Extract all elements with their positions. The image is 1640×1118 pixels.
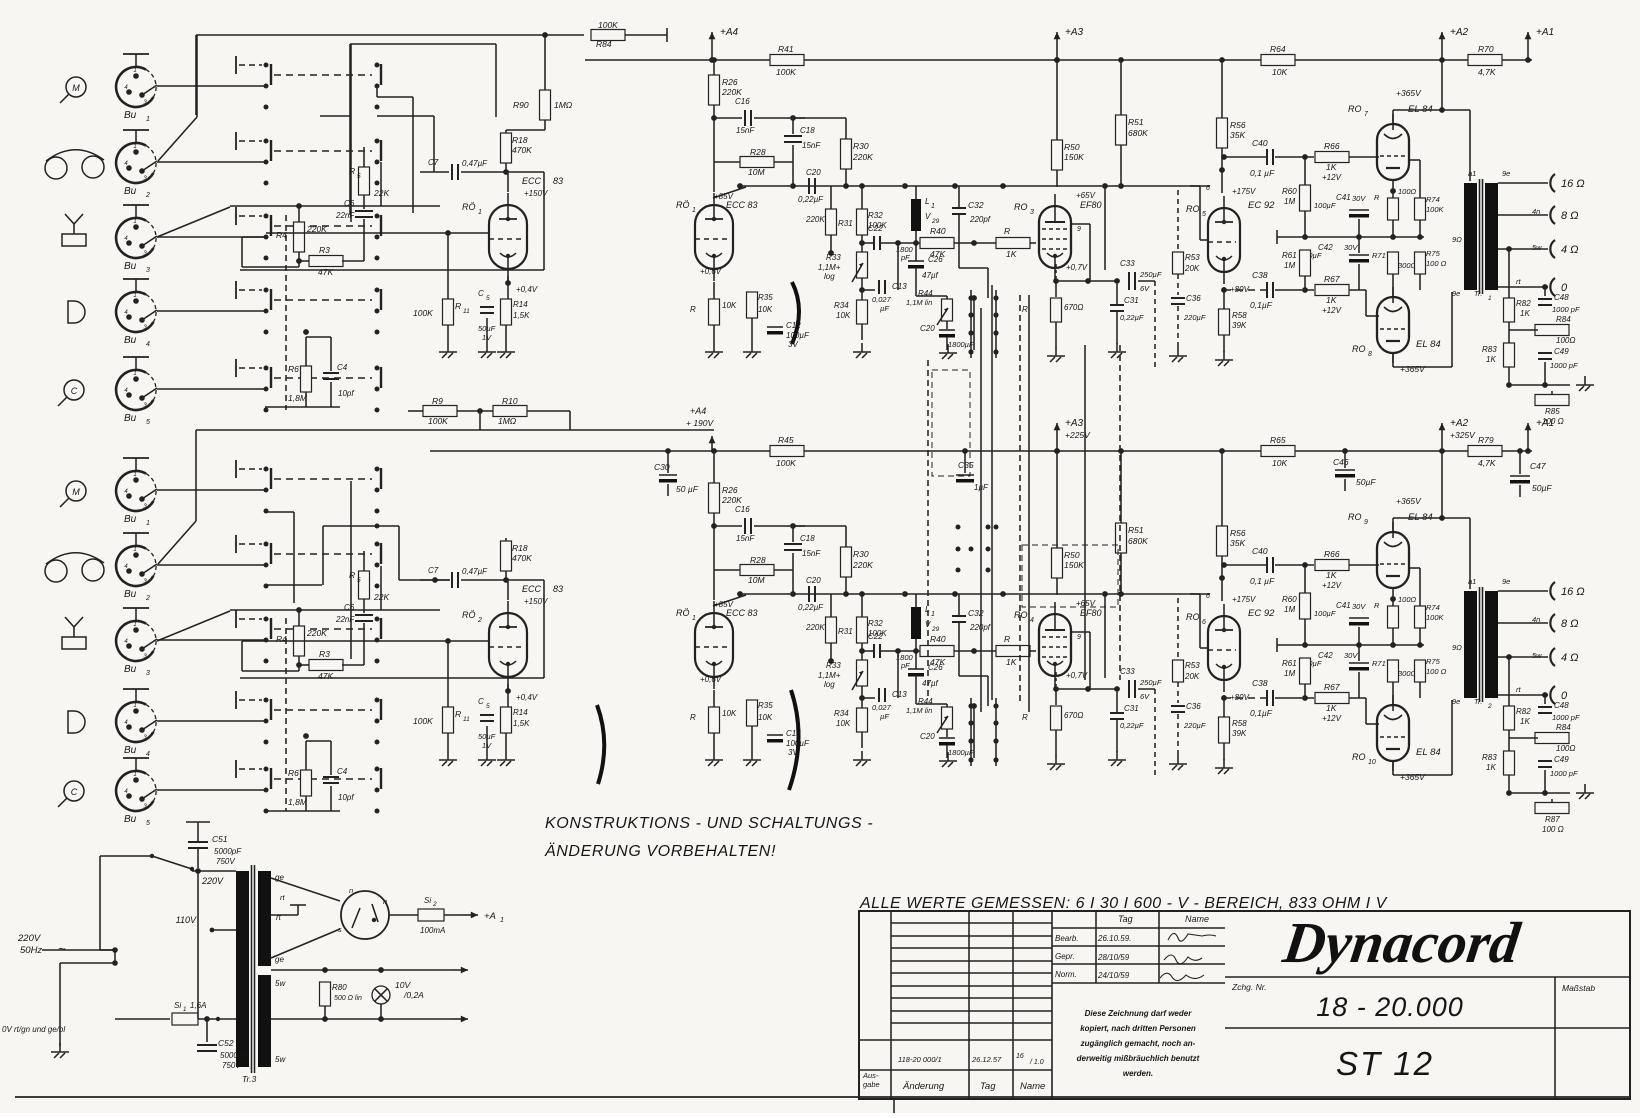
- svg-text:1: 1: [146, 520, 150, 527]
- svg-text:C41: C41: [1336, 601, 1351, 610]
- svg-text:Bu: Bu: [124, 589, 137, 600]
- svg-text:1: 1: [133, 293, 136, 299]
- svg-text:R4: R4: [276, 230, 287, 240]
- svg-text:10pf: 10pf: [338, 793, 354, 802]
- svg-text:R: R: [1004, 634, 1010, 644]
- svg-text:1: 1: [931, 203, 935, 210]
- svg-text:4,7K: 4,7K: [1478, 458, 1496, 468]
- svg-text:1: 1: [133, 219, 136, 225]
- svg-text:Maßstab: Maßstab: [1562, 983, 1595, 993]
- svg-text:500 Ω lin: 500 Ω lin: [334, 995, 362, 1002]
- svg-text:0,1 µF: 0,1 µF: [1250, 168, 1275, 178]
- svg-text:C38: C38: [1252, 678, 1268, 688]
- svg-text:C16: C16: [735, 505, 750, 514]
- svg-text:C13: C13: [892, 282, 907, 291]
- svg-text:1K: 1K: [1326, 162, 1337, 172]
- svg-text:100mA: 100mA: [420, 926, 445, 935]
- svg-text:EF80: EF80: [1080, 608, 1102, 618]
- svg-text:35K: 35K: [1230, 538, 1245, 548]
- svg-text:100Ω: 100Ω: [1398, 595, 1417, 604]
- svg-text:R18: R18: [512, 543, 528, 553]
- svg-text:+A3: +A3: [1065, 27, 1084, 38]
- svg-text:R74: R74: [1426, 195, 1440, 204]
- svg-text:0,22µF: 0,22µF: [798, 603, 824, 612]
- svg-text:5w: 5w: [275, 979, 286, 988]
- svg-text:C22: C22: [868, 224, 883, 233]
- svg-text:0,22µF: 0,22µF: [798, 195, 824, 204]
- svg-text:R33: R33: [826, 253, 841, 262]
- svg-text:R61: R61: [1282, 659, 1297, 668]
- svg-text:n: n: [349, 886, 353, 895]
- svg-text:C20: C20: [920, 324, 935, 333]
- svg-text:s: s: [338, 925, 342, 934]
- svg-text:R58: R58: [1232, 311, 1247, 320]
- svg-text:11: 11: [463, 308, 470, 315]
- svg-text:R56: R56: [1230, 120, 1246, 130]
- svg-text:9e: 9e: [1502, 169, 1510, 178]
- svg-text:R67: R67: [1324, 682, 1340, 692]
- svg-text:ECC: ECC: [522, 584, 542, 594]
- svg-text:250µF: 250µF: [1139, 678, 1162, 687]
- svg-text:9e: 9e: [1452, 697, 1460, 706]
- svg-text:R34: R34: [834, 709, 849, 718]
- svg-text:39K: 39K: [1232, 729, 1247, 738]
- svg-text:Änderung: Änderung: [902, 1081, 945, 1092]
- svg-text:R30: R30: [853, 141, 869, 151]
- svg-text:1: 1: [500, 917, 504, 924]
- svg-text:C16: C16: [735, 97, 750, 106]
- svg-text:M: M: [72, 487, 80, 497]
- svg-text:18 - 20.000: 18 - 20.000: [1316, 992, 1464, 1022]
- svg-text:+A4: +A4: [720, 27, 739, 38]
- svg-text:+0,4V: +0,4V: [516, 693, 538, 702]
- svg-text:100K: 100K: [413, 308, 433, 318]
- svg-text:29: 29: [931, 626, 940, 633]
- svg-text:C40: C40: [1252, 138, 1268, 148]
- svg-text:R: R: [690, 713, 696, 722]
- svg-text:3: 3: [146, 670, 150, 677]
- svg-text:EC 92: EC 92: [1248, 200, 1275, 211]
- svg-text:5w: 5w: [1532, 651, 1542, 660]
- svg-text:1K: 1K: [1326, 295, 1337, 305]
- svg-text:15nF: 15nF: [736, 534, 755, 543]
- svg-text:R75: R75: [1426, 249, 1441, 258]
- svg-text:5w: 5w: [1532, 243, 1542, 252]
- svg-text:C7: C7: [428, 158, 439, 167]
- svg-text:R66: R66: [1324, 549, 1340, 559]
- svg-text:R3: R3: [319, 245, 330, 255]
- svg-text:~: ~: [58, 941, 66, 956]
- svg-text:R28: R28: [750, 555, 766, 565]
- svg-text:R41: R41: [778, 44, 794, 54]
- svg-text:+365V: +365V: [1400, 364, 1426, 374]
- svg-text:M: M: [72, 83, 80, 93]
- svg-text:R67: R67: [1324, 274, 1340, 284]
- svg-text:R58: R58: [1232, 719, 1247, 728]
- svg-text:118-20 000/1: 118-20 000/1: [898, 1055, 942, 1064]
- svg-text:C4: C4: [337, 767, 348, 776]
- svg-text:a1: a1: [1468, 577, 1476, 586]
- svg-text:4: 4: [146, 341, 150, 348]
- svg-text:1MΩ: 1MΩ: [498, 416, 517, 426]
- svg-text:220V: 220V: [17, 933, 42, 944]
- svg-text:Tag: Tag: [980, 1081, 996, 1092]
- svg-text:6: 6: [1206, 593, 1210, 600]
- svg-text:100K: 100K: [776, 458, 796, 468]
- svg-text:C38: C38: [1252, 270, 1268, 280]
- svg-text:+365V: +365V: [1396, 88, 1422, 98]
- svg-text:Bu: Bu: [124, 514, 137, 525]
- svg-text:C33: C33: [1120, 259, 1135, 268]
- svg-text:EL 84: EL 84: [1416, 339, 1441, 350]
- svg-text:6V: 6V: [1140, 284, 1150, 293]
- svg-text:47µf: 47µf: [922, 271, 939, 280]
- svg-text:C4: C4: [337, 363, 348, 372]
- svg-text:0,47µF: 0,47µF: [462, 567, 488, 576]
- svg-text:Aus-: Aus-: [862, 1071, 879, 1080]
- svg-text:R34: R34: [834, 301, 849, 310]
- svg-text:R32: R32: [868, 211, 883, 220]
- svg-text:+0,6V: +0,6V: [700, 675, 722, 684]
- svg-text:R26: R26: [722, 77, 738, 87]
- svg-text:Bu: Bu: [124, 335, 137, 346]
- svg-text:750V: 750V: [216, 857, 235, 866]
- svg-text:Gepr.: Gepr.: [1055, 952, 1075, 961]
- svg-text:+12V: +12V: [1322, 306, 1342, 315]
- svg-text:1: 1: [133, 371, 136, 377]
- svg-text:R40: R40: [930, 226, 946, 236]
- svg-text:680K: 680K: [1128, 536, 1148, 546]
- svg-text:+175V: +175V: [1232, 595, 1256, 604]
- svg-text:4 Ω: 4 Ω: [1561, 652, 1579, 664]
- svg-text:100K: 100K: [598, 20, 618, 30]
- svg-text:1800µF: 1800µF: [948, 748, 974, 757]
- svg-text:26.12.57: 26.12.57: [971, 1055, 1002, 1064]
- svg-text:Tag: Tag: [1118, 914, 1133, 924]
- svg-text:1: 1: [183, 1007, 186, 1013]
- svg-text:+A2: +A2: [1450, 27, 1469, 38]
- svg-text:+ 190V: + 190V: [686, 418, 715, 428]
- svg-text:20K: 20K: [1184, 264, 1200, 273]
- svg-text:0,1µF: 0,1µF: [1250, 300, 1273, 310]
- svg-text:1M: 1M: [1284, 669, 1295, 678]
- svg-text:µF: µF: [880, 712, 889, 721]
- svg-text:kopiert, nach dritten Perso: kopiert, nach dritten Personen: [1080, 1024, 1196, 1033]
- svg-text:R31: R31: [838, 219, 853, 228]
- svg-text:30V: 30V: [1352, 194, 1366, 203]
- svg-text:gabe: gabe: [863, 1080, 880, 1089]
- svg-text:+365V: +365V: [1396, 496, 1422, 506]
- svg-text:Bu: Bu: [124, 745, 137, 756]
- svg-text:4: 4: [1030, 617, 1034, 624]
- svg-text:R53: R53: [1185, 661, 1200, 670]
- svg-text:9: 9: [1077, 226, 1081, 233]
- svg-text:1K: 1K: [1326, 703, 1337, 713]
- svg-text:Bearb.: Bearb.: [1055, 934, 1079, 943]
- svg-text:R: R: [690, 305, 696, 314]
- svg-text:9: 9: [1364, 519, 1368, 526]
- svg-text:16: 16: [1016, 1053, 1024, 1060]
- svg-text:5: 5: [1202, 211, 1206, 218]
- svg-text:35K: 35K: [1230, 130, 1245, 140]
- svg-text:100Ω: 100Ω: [1556, 336, 1575, 345]
- svg-text:EL 84: EL 84: [1416, 747, 1441, 758]
- svg-text:1K: 1K: [1486, 355, 1496, 364]
- svg-text:R84: R84: [1556, 723, 1571, 732]
- svg-text:C20: C20: [806, 168, 821, 177]
- svg-text:110V: 110V: [176, 915, 197, 925]
- svg-text:220K: 220K: [852, 560, 873, 570]
- svg-text:C18: C18: [800, 534, 815, 543]
- svg-text:22nF: 22nF: [335, 211, 355, 220]
- svg-text:V: V: [925, 212, 931, 221]
- svg-text:9Ω: 9Ω: [1452, 235, 1462, 244]
- svg-text:83: 83: [553, 584, 563, 594]
- svg-text:RO: RO: [1352, 344, 1366, 354]
- svg-text:0,027: 0,027: [872, 295, 892, 304]
- svg-text:0,22µF: 0,22µF: [1120, 313, 1144, 322]
- svg-text:C22: C22: [868, 632, 883, 641]
- svg-text:R83: R83: [1482, 753, 1497, 762]
- svg-text:+A1: +A1: [1536, 418, 1554, 429]
- svg-text:5: 5: [357, 173, 361, 180]
- svg-text:R44: R44: [918, 289, 933, 298]
- svg-text:30V: 30V: [1352, 602, 1366, 611]
- svg-text:0,47µF: 0,47µF: [462, 159, 488, 168]
- svg-text:R: R: [1374, 601, 1380, 610]
- svg-text:5000pF: 5000pF: [220, 1051, 248, 1060]
- svg-text:R70: R70: [1478, 44, 1494, 54]
- svg-text:15nF: 15nF: [736, 126, 755, 135]
- svg-text:EC 92: EC 92: [1248, 608, 1275, 619]
- svg-text:10K: 10K: [836, 311, 851, 320]
- svg-text:1,1M+: 1,1M+: [818, 263, 841, 272]
- svg-text:+65V: +65V: [1076, 191, 1096, 200]
- svg-text:6: 6: [1206, 185, 1210, 192]
- svg-text:2: 2: [145, 595, 150, 602]
- svg-text:1: 1: [931, 611, 935, 618]
- svg-text:5000pF: 5000pF: [214, 847, 242, 856]
- svg-text:1,8M: 1,8M: [288, 797, 308, 807]
- svg-text:R45: R45: [778, 435, 794, 445]
- svg-text:5: 5: [146, 419, 150, 426]
- svg-text:R87: R87: [1545, 815, 1560, 824]
- svg-text:100 Ω: 100 Ω: [1426, 667, 1447, 676]
- svg-text:28/10/59: 28/10/59: [1097, 953, 1130, 962]
- svg-text:R51: R51: [1128, 117, 1144, 127]
- svg-text:R14: R14: [513, 300, 528, 309]
- svg-text:220pf: 220pf: [969, 623, 991, 632]
- svg-text:220K: 220K: [805, 215, 825, 224]
- svg-text:R50: R50: [1064, 142, 1080, 152]
- svg-text:Si: Si: [174, 1001, 181, 1010]
- svg-text:Bu: Bu: [124, 413, 137, 424]
- svg-text:15nF: 15nF: [802, 141, 821, 150]
- svg-text:R6: R6: [288, 364, 299, 374]
- svg-text:C7: C7: [428, 566, 439, 575]
- svg-text:R66: R66: [1324, 141, 1340, 151]
- svg-text:220K: 220K: [306, 628, 327, 638]
- svg-text:R64: R64: [1270, 44, 1286, 54]
- svg-text:R82: R82: [1516, 707, 1531, 716]
- svg-text:+A4: +A4: [690, 406, 706, 416]
- svg-text:29: 29: [931, 218, 940, 225]
- svg-text:10K: 10K: [1272, 458, 1287, 468]
- svg-text:220K: 220K: [805, 623, 825, 632]
- svg-text:1800µF: 1800µF: [948, 340, 974, 349]
- svg-text:16 Ω: 16 Ω: [1561, 586, 1585, 598]
- svg-text:R82: R82: [1516, 299, 1531, 308]
- svg-text:22nF: 22nF: [335, 615, 355, 624]
- svg-text:R18: R18: [512, 135, 528, 145]
- svg-text:1,1M lin: 1,1M lin: [906, 298, 932, 307]
- svg-text:1: 1: [133, 472, 136, 478]
- svg-text:5: 5: [486, 703, 490, 710]
- svg-text:R85: R85: [1545, 407, 1560, 416]
- svg-text:R: R: [349, 166, 355, 176]
- svg-text:220K: 220K: [721, 87, 742, 97]
- svg-text:1: 1: [133, 772, 136, 778]
- svg-text:R56: R56: [1230, 528, 1246, 538]
- svg-text:750V: 750V: [222, 1061, 241, 1070]
- svg-text:Norm.: Norm.: [1055, 970, 1077, 979]
- svg-text:+12V: +12V: [1322, 581, 1342, 590]
- svg-text:Bu: Bu: [124, 186, 137, 197]
- svg-text:10V: 10V: [395, 980, 411, 990]
- svg-text:Tr.3: Tr.3: [242, 1074, 256, 1084]
- svg-text:150K: 150K: [1064, 152, 1084, 162]
- svg-text:50Hz: 50Hz: [20, 945, 42, 956]
- svg-text:10K: 10K: [836, 719, 851, 728]
- svg-text:1,1M lin: 1,1M lin: [906, 706, 932, 715]
- svg-text:1000 pF: 1000 pF: [1552, 305, 1580, 314]
- svg-text:Bu: Bu: [124, 110, 137, 121]
- svg-text:1K: 1K: [1326, 570, 1337, 580]
- svg-text:C: C: [478, 289, 484, 298]
- svg-text:+A3: +A3: [1065, 418, 1084, 429]
- svg-text:220K: 220K: [852, 152, 873, 162]
- svg-text:C35: C35: [958, 460, 974, 470]
- svg-text:RÖ: RÖ: [676, 608, 690, 618]
- svg-text:47µf: 47µf: [922, 679, 939, 688]
- svg-text:1: 1: [133, 68, 136, 74]
- svg-text:RO: RO: [1348, 512, 1362, 522]
- svg-text:EF80: EF80: [1080, 200, 1102, 210]
- svg-text:a1: a1: [1468, 169, 1476, 178]
- svg-text:R: R: [1374, 193, 1380, 202]
- svg-text:C13: C13: [892, 690, 907, 699]
- svg-text:1M: 1M: [1284, 605, 1295, 614]
- svg-text:220V: 220V: [201, 876, 224, 886]
- svg-text:47K: 47K: [318, 671, 333, 681]
- svg-text:C49: C49: [1554, 347, 1569, 356]
- svg-text:R71: R71: [1372, 251, 1386, 260]
- svg-text:+365V: +365V: [1400, 772, 1426, 782]
- svg-text:R84: R84: [1556, 315, 1571, 324]
- svg-text:R61: R61: [1282, 251, 1297, 260]
- svg-text:R50: R50: [1064, 550, 1080, 560]
- svg-text:100K: 100K: [1426, 205, 1445, 214]
- svg-text:+175V: +175V: [1232, 187, 1256, 196]
- svg-text:ÄNDERUNG VORBEHALTEN!: ÄNDERUNG VORBEHALTEN!: [544, 842, 776, 860]
- svg-text:9e: 9e: [1452, 289, 1460, 298]
- svg-text:C49: C49: [1554, 755, 1569, 764]
- svg-text:R30: R30: [853, 549, 869, 559]
- svg-text:30V: 30V: [1344, 651, 1358, 660]
- svg-text:werden.: werden.: [1123, 1069, 1153, 1078]
- svg-text:100 Ω: 100 Ω: [1426, 259, 1447, 268]
- svg-text:1: 1: [1488, 295, 1492, 302]
- svg-text:R84: R84: [596, 39, 612, 49]
- svg-text:11: 11: [463, 716, 470, 723]
- svg-text:C36: C36: [1186, 702, 1201, 711]
- svg-text:0,027: 0,027: [872, 703, 892, 712]
- svg-text:1000 pF: 1000 pF: [1550, 769, 1578, 778]
- svg-text:RÖ: RÖ: [676, 200, 690, 210]
- svg-text:/0,2A: /0,2A: [403, 990, 424, 1000]
- svg-text:10K: 10K: [758, 305, 773, 314]
- svg-text:RO: RO: [1186, 612, 1200, 622]
- svg-text:derweitig mißbräuchlich benut: derweitig mißbräuchlich benutzt: [1077, 1054, 1200, 1063]
- svg-text:R71: R71: [1372, 659, 1386, 668]
- svg-text:470K: 470K: [512, 553, 532, 563]
- svg-text:R60: R60: [1282, 595, 1297, 604]
- svg-text:1,5K: 1,5K: [513, 311, 530, 320]
- svg-text:8 Ω: 8 Ω: [1561, 210, 1579, 222]
- svg-text:10K: 10K: [722, 709, 737, 718]
- svg-text:R10: R10: [502, 396, 518, 406]
- svg-text:1: 1: [146, 116, 150, 123]
- svg-text:16 Ω: 16 Ω: [1561, 178, 1585, 190]
- svg-text:8 Ω: 8 Ω: [1561, 618, 1579, 630]
- svg-text:+A1: +A1: [1536, 27, 1554, 38]
- svg-text:1000 pF: 1000 pF: [1552, 713, 1580, 722]
- svg-text:+325V: +325V: [1450, 430, 1476, 440]
- svg-text:+0,6V: +0,6V: [700, 267, 722, 276]
- svg-text:1MΩ: 1MΩ: [554, 100, 573, 110]
- svg-text:83: 83: [553, 176, 563, 186]
- svg-text:1K: 1K: [1486, 763, 1496, 772]
- svg-text:1K: 1K: [1006, 249, 1017, 259]
- svg-text:50 µF: 50 µF: [676, 484, 699, 494]
- svg-text:100µF: 100µF: [1314, 201, 1336, 210]
- svg-text:+225V: +225V: [1065, 430, 1091, 440]
- svg-text:R: R: [1022, 305, 1028, 314]
- svg-text:0,1µF: 0,1µF: [1250, 708, 1273, 718]
- svg-text:R: R: [1004, 226, 1010, 236]
- svg-text:1: 1: [133, 144, 136, 150]
- svg-text:RO: RO: [1014, 202, 1028, 212]
- svg-text:R53: R53: [1185, 253, 1200, 262]
- svg-text:R: R: [455, 301, 461, 311]
- svg-text:+A2: +A2: [1450, 418, 1469, 429]
- svg-text:R31: R31: [838, 627, 853, 636]
- svg-text:1: 1: [478, 209, 482, 216]
- svg-text:log: log: [824, 272, 835, 281]
- svg-text:R32: R32: [868, 619, 883, 628]
- svg-text:R28: R28: [750, 147, 766, 157]
- svg-text:6: 6: [1202, 619, 1206, 626]
- svg-text:0,1 µF: 0,1 µF: [1250, 576, 1275, 586]
- svg-text:10pf: 10pf: [338, 389, 354, 398]
- svg-text:C26: C26: [928, 663, 943, 672]
- svg-text:Tr.: Tr.: [1474, 697, 1482, 706]
- svg-text:C48: C48: [1554, 293, 1569, 302]
- svg-text:220K: 220K: [721, 495, 742, 505]
- svg-text:+0,7V: +0,7V: [1066, 263, 1088, 272]
- svg-text:n: n: [383, 897, 387, 906]
- svg-text:ECC: ECC: [522, 176, 542, 186]
